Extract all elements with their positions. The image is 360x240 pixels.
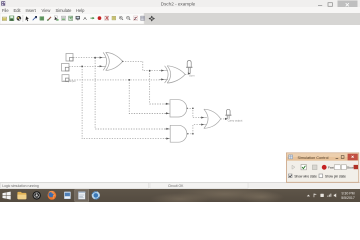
wire AND U4 output to OR U5 xyxy=(188,125,201,134)
menu bar xyxy=(0,7,360,13)
status bar xyxy=(0,182,360,190)
junction node XOR1 out xyxy=(149,70,151,72)
active app button dsch2 xyxy=(75,189,90,201)
wire XOR U1 output to XOR U2 xyxy=(123,61,162,70)
blue swirl icon xyxy=(92,191,100,199)
icon: timing Z xyxy=(133,16,137,21)
icon: timing xyxy=(105,16,109,20)
wire XOR U2 output to LED Sum xyxy=(185,73,188,75)
LED Carry pin arrowhead xyxy=(225,118,228,120)
blue app icon xyxy=(64,192,71,199)
junction node A xyxy=(94,57,96,59)
wire B branch to AND U4 xyxy=(82,66,166,138)
XOR gate U1 xyxy=(98,52,123,70)
AND gate U3 xyxy=(165,100,187,117)
wire Cin to XOR U2 xyxy=(69,79,161,81)
toolbar xyxy=(0,13,360,25)
icon: yellow chip xyxy=(112,16,116,20)
icon: save xyxy=(9,16,14,21)
junction node Cin xyxy=(128,79,130,81)
icon: record red xyxy=(98,16,102,20)
wire A branch to AND U4 xyxy=(95,58,166,129)
icon: pointer xyxy=(26,16,29,21)
svg-text:Carry output: Carry output xyxy=(228,119,243,123)
checkbox row xyxy=(288,174,292,178)
svg-text:Carry input: Carry input xyxy=(63,80,76,83)
icon: import xyxy=(17,16,22,21)
LED Sum xyxy=(186,61,195,78)
icon: monitor xyxy=(76,16,80,20)
icon: delete xyxy=(47,16,51,21)
pin dot AND U4 output xyxy=(187,133,188,134)
wire XOR U1 branch to AND U3 xyxy=(150,71,166,104)
icon: run arrow xyxy=(90,17,94,19)
folder icon xyxy=(17,192,26,199)
junction AND U3 output bend xyxy=(192,108,194,110)
icon: open xyxy=(2,17,7,20)
input button A xyxy=(66,54,73,62)
icon: library xyxy=(69,16,73,20)
icon: text A xyxy=(83,16,87,22)
title bar xyxy=(0,0,360,8)
OR U5 input arrowheads xyxy=(201,117,204,126)
svg-text:Slow: Slow xyxy=(347,166,354,170)
wire Cin branch to AND U3 xyxy=(129,80,166,114)
icon: paste xyxy=(61,16,65,20)
simulation control window xyxy=(286,152,360,183)
LED Carry output xyxy=(225,109,242,122)
LED Sum pin arrowhead xyxy=(188,72,191,74)
junction node B xyxy=(81,66,83,68)
XOR U1 input arrowheads xyxy=(100,57,103,68)
firefox icon xyxy=(48,191,57,200)
junction AND U4 output bend xyxy=(192,133,194,135)
svg-text:Circuit OK: Circuit OK xyxy=(168,184,184,188)
input button Carry input xyxy=(62,75,76,84)
wire B to XOR U1 xyxy=(69,65,99,67)
dark sphere icon xyxy=(33,191,41,199)
svg-text:Show pin state: Show pin state xyxy=(325,174,346,178)
svg-text:Show wire state: Show wire state xyxy=(294,174,317,178)
icon: zoom out xyxy=(127,16,131,20)
svg-text:Fast: Fast xyxy=(328,166,334,170)
pan cross xyxy=(149,16,155,22)
wire AND U3 output to OR U5 xyxy=(187,108,201,117)
pin dot XOR U1 output xyxy=(122,61,123,62)
icon: wire xyxy=(33,16,37,20)
AND gate U4 xyxy=(165,125,187,142)
XOR gate U2 xyxy=(159,66,185,83)
pin dot AND U3 output xyxy=(187,108,188,109)
icon: copy page xyxy=(54,16,58,21)
svg-text:Logic simulation running: Logic simulation running xyxy=(2,184,39,188)
AND U3 input arrowheads xyxy=(166,103,169,115)
AND U4 input arrowheads xyxy=(166,128,169,140)
tray glyphs xyxy=(307,193,336,197)
wire A to XOR U1 xyxy=(73,57,99,59)
input button B xyxy=(62,64,70,72)
svg-text:Simulation Control: Simulation Control xyxy=(298,156,329,160)
svg-text:5/5/2017: 5/5/2017 xyxy=(341,196,355,200)
OR gate U5 xyxy=(200,109,221,128)
toolbar row xyxy=(292,165,295,169)
taskbar xyxy=(0,189,360,202)
XOR U2 input arrowheads xyxy=(161,70,164,81)
wire OR U5 output to LED Carry xyxy=(221,118,226,120)
icon: zoom in xyxy=(119,16,123,20)
svg-text:9:30 PM: 9:30 PM xyxy=(341,191,354,195)
icon: grid xyxy=(141,16,145,20)
windows start logo xyxy=(3,192,11,200)
svg-text:Sum: Sum xyxy=(189,73,195,77)
icon: component green xyxy=(40,17,44,20)
